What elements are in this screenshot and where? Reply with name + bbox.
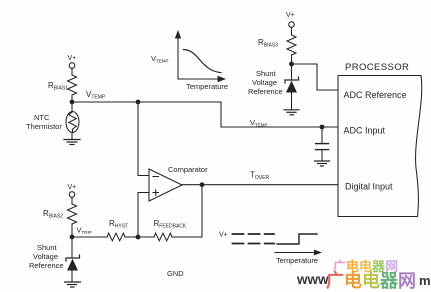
hysteresis dashed high level bbox=[233, 233, 275, 235]
svg-text:GND: GND bbox=[167, 269, 184, 278]
zener diode D2 (shunt voltage reference) bbox=[285, 77, 299, 93]
wire RBIAS1 to node VTEMP bbox=[71, 95, 73, 111]
svg-text:Reference: Reference bbox=[29, 261, 64, 270]
hysteresis dashed low level bbox=[233, 243, 275, 245]
svg-text:m: m bbox=[419, 273, 431, 288]
wire zener to ground bbox=[291, 93, 293, 110]
wire V+ to RBIAS2 bbox=[71, 197, 73, 204]
processor box bbox=[338, 76, 422, 217]
resistor RBIAS2 bbox=[68, 204, 77, 224]
svg-text:Temperature: Temperature bbox=[276, 256, 318, 265]
wire VTEMP horizontal bbox=[72, 101, 221, 103]
node (ADC reference) bbox=[289, 62, 294, 67]
wire V+ to RBIAS3 bbox=[291, 27, 293, 35]
terminal V+ (RBIAS2 branch) bbox=[68, 184, 77, 197]
wire comparator output to Digital Input bbox=[182, 184, 338, 186]
resistor RFEEDBACK bbox=[138, 233, 202, 241]
svg-text:Reference: Reference bbox=[248, 87, 283, 96]
wire VTEMP to ADC Input bbox=[221, 102, 338, 127]
junction (filter capacitor) bbox=[320, 125, 325, 130]
resistor RBIAS3 bbox=[287, 35, 296, 55]
label Shunt Voltage Reference (top) bbox=[248, 69, 283, 96]
svg-text:ADC Input: ADC Input bbox=[344, 126, 386, 136]
wire junction to capacitor bbox=[321, 127, 323, 143]
ground (zener D1) bbox=[65, 282, 81, 287]
svg-text:Temperature: Temperature bbox=[186, 82, 228, 91]
wire zener D1 to ground bbox=[71, 271, 73, 283]
graph x axis bbox=[178, 76, 226, 82]
wire RBIAS2 to node VTRIP bbox=[71, 224, 73, 258]
svg-text:Shunt: Shunt bbox=[37, 243, 58, 252]
svg-text:ADC Reference: ADC Reference bbox=[344, 90, 407, 100]
resistor RBIAS1 bbox=[68, 75, 77, 95]
thermistor RT1 (NTC) bbox=[66, 112, 79, 133]
junction (comparator branch) bbox=[136, 100, 141, 105]
svg-text:NTC: NTC bbox=[34, 113, 50, 122]
svg-text:V+: V+ bbox=[286, 12, 295, 19]
label Shunt Voltage Reference (bottom) bbox=[29, 243, 64, 270]
svg-text:Shunt: Shunt bbox=[256, 69, 277, 78]
wire node to ADC Reference bbox=[292, 64, 339, 90]
hysteresis temperature arrow bbox=[275, 250, 322, 256]
resistor RHYST bbox=[72, 233, 138, 241]
svg-text:www: www bbox=[296, 272, 329, 287]
svg-text:Thermistor: Thermistor bbox=[26, 122, 62, 131]
wire capacitor to ground bbox=[321, 150, 323, 161]
wire RBIAS3 to node bbox=[291, 55, 293, 80]
ground (zener D2) bbox=[284, 110, 299, 115]
wire output node down to feedback bbox=[201, 185, 203, 237]
svg-text:Voltage: Voltage bbox=[252, 78, 277, 87]
svg-text:Voltage: Voltage bbox=[33, 252, 58, 261]
op-amp U1 comparator bbox=[149, 169, 182, 201]
node VTRIP bbox=[70, 235, 75, 240]
svg-text:V+: V+ bbox=[68, 55, 77, 62]
node VTEMP bbox=[70, 100, 75, 105]
wire junction to comparator inverting input bbox=[138, 102, 149, 176]
comparator plus sign bbox=[153, 190, 159, 196]
watermark row 1 bbox=[333, 259, 398, 274]
watermark row 2 bbox=[296, 270, 431, 291]
svg-text:Digital Input: Digital Input bbox=[345, 182, 393, 192]
ground (capacitor) bbox=[315, 161, 330, 166]
graph curve bbox=[184, 50, 222, 73]
svg-text:PROCESSOR: PROCESSOR bbox=[345, 62, 409, 73]
wire noninverting input bbox=[138, 193, 149, 238]
hysteresis output step bbox=[277, 234, 317, 244]
wire thermistor to ground bbox=[71, 133, 73, 140]
terminal V+ (RBIAS3 branch) bbox=[286, 12, 295, 27]
svg-text:V+: V+ bbox=[68, 184, 77, 191]
capacitor C1 bbox=[316, 144, 329, 150]
svg-text:Comparator: Comparator bbox=[168, 165, 208, 174]
label NTC Thermistor bbox=[26, 113, 62, 131]
svg-text:V+: V+ bbox=[219, 232, 228, 239]
comparator minus sign bbox=[153, 176, 159, 178]
node (comparator output) bbox=[200, 182, 205, 187]
terminal V+ (RBIAS1 branch) bbox=[68, 55, 77, 68]
wire V+ to RBIAS1 bbox=[71, 68, 73, 75]
ground (thermistor) bbox=[64, 140, 80, 145]
zener diode D1 (shunt voltage reference) bbox=[66, 255, 80, 271]
svg-text:广电电器网: 广电电器网 bbox=[326, 270, 416, 291]
node (feedback junction) bbox=[136, 235, 141, 240]
graph VTEMP vs Temperature : y axis bbox=[175, 30, 181, 79]
